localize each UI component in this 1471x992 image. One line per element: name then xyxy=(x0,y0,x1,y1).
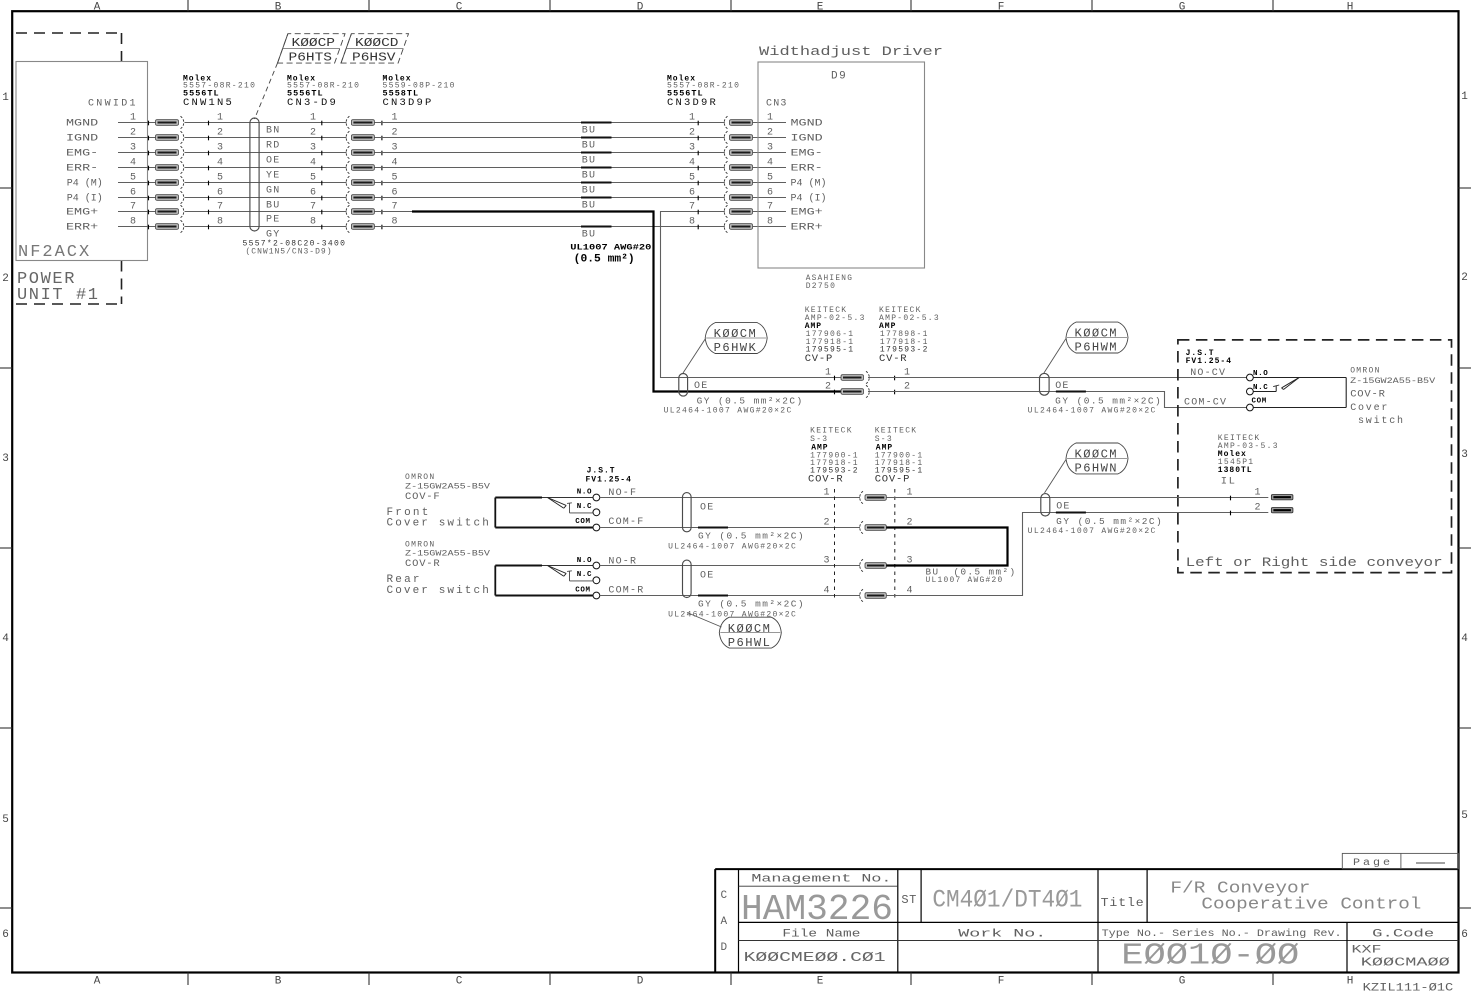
svg-text:OE: OE xyxy=(266,156,280,167)
svg-text:COV-R: COV-R xyxy=(808,473,844,485)
svg-text:D: D xyxy=(637,1,644,13)
J.S.T FV1.25-4 label (front switch) xyxy=(586,467,632,485)
crimp contact CNW1N5 pin 4 xyxy=(149,161,184,173)
svg-text:OE: OE xyxy=(700,571,714,582)
svg-text:4: 4 xyxy=(310,158,316,169)
type number cell xyxy=(1102,928,1342,974)
cable marker rear pair xyxy=(683,560,715,597)
front cover switch body COV-F xyxy=(495,498,593,528)
crimp contact CN3D9R pin 4 xyxy=(689,158,753,174)
svg-text:IL: IL xyxy=(1221,476,1237,488)
svg-text:2: 2 xyxy=(1254,503,1260,514)
svg-text:4: 4 xyxy=(217,158,223,169)
svg-text:CNWID1: CNWID1 xyxy=(88,99,138,110)
svg-text:FV1.25-4: FV1.25-4 xyxy=(1186,357,1232,366)
wire colour label BU xyxy=(266,201,280,212)
svg-text:2: 2 xyxy=(689,128,695,139)
crimp contact CNW1N5 pin 3 xyxy=(149,146,184,158)
svg-text:P4 (I): P4 (I) xyxy=(791,193,827,205)
wire CNW1N5 pin 6 to CN3-D9 xyxy=(185,188,347,201)
svg-text:1380TL: 1380TL xyxy=(1218,466,1253,475)
wire CN3 pin 2 into driver xyxy=(753,128,823,145)
cable note GY front xyxy=(668,528,805,552)
jumper note BU UL1007 xyxy=(926,568,1017,585)
crimp contact CN3-D9/CN3D9P pin 2 xyxy=(346,128,397,144)
svg-text:F: F xyxy=(998,976,1005,988)
svg-text:GY (0.5 mm²×2C): GY (0.5 mm²×2C) xyxy=(698,600,805,610)
svg-text:P4 (M): P4 (M) xyxy=(791,178,827,190)
svg-text:3: 3 xyxy=(767,143,773,154)
svg-text:4: 4 xyxy=(767,158,773,169)
frame column labels bottom xyxy=(94,976,1354,988)
svg-text:5: 5 xyxy=(1461,810,1468,822)
management number cell xyxy=(741,874,893,931)
svg-text:OMRON: OMRON xyxy=(405,541,436,550)
svg-text:IGND: IGND xyxy=(66,132,98,144)
svg-text:MGND: MGND xyxy=(791,118,823,130)
wire CN3 pin 7 into driver xyxy=(753,202,823,219)
wire colour label BU row 8 xyxy=(582,230,596,241)
NF2ACX power unit box xyxy=(16,62,148,263)
svg-text:5: 5 xyxy=(689,173,695,184)
cable note GY at CV left xyxy=(664,397,804,416)
svg-text:P4 (I): P4 (I) xyxy=(67,192,103,204)
svg-text:CV-P: CV-P xyxy=(805,353,833,365)
svg-text:2: 2 xyxy=(825,382,831,393)
wire colour label BU row 1 xyxy=(582,126,596,137)
net labels NO-R / COM-R xyxy=(608,557,644,597)
svg-text:BU: BU xyxy=(266,201,280,212)
wire colour label BU row 4 xyxy=(582,171,596,182)
crimp contact CN3D9R pin 3 xyxy=(689,143,753,159)
Left or Right side conveyor dashed enclosure xyxy=(1178,340,1452,573)
svg-text:4: 4 xyxy=(2,633,9,645)
frame column labels top xyxy=(94,1,1354,13)
frame row labels left xyxy=(2,92,9,941)
svg-text:3: 3 xyxy=(310,143,316,154)
svg-text:COM: COM xyxy=(575,587,590,595)
crimp contact CNW1N5 pin 2 xyxy=(149,131,184,143)
cable marker OE pair to IL xyxy=(1041,494,1071,516)
svg-text:EMG-: EMG- xyxy=(66,147,98,159)
svg-text:Cover: Cover xyxy=(1350,403,1389,414)
ST / CM401 cell xyxy=(901,886,1082,915)
leader from cable to flag P6HWL xyxy=(687,613,722,628)
cover switch body (conveyor) xyxy=(1253,377,1346,407)
wire CNW1N5 pin 5 to CN3-D9 xyxy=(185,173,347,186)
wire colour label YE xyxy=(266,171,280,182)
svg-text:BU: BU xyxy=(582,171,596,182)
svg-text:5: 5 xyxy=(2,814,9,826)
crimp contact CN3D9R pin 2 xyxy=(689,128,753,144)
svg-text:OE: OE xyxy=(1056,502,1070,513)
connector CNW1N5 header xyxy=(183,75,256,110)
wire CNW1N5 pin 4 to CN3-D9 xyxy=(185,158,347,171)
svg-text:P4 (M): P4 (M) xyxy=(67,177,103,189)
wire CN3D9P pin 6 to CN3D9R (BU) xyxy=(375,197,725,199)
svg-text:ERR+: ERR+ xyxy=(791,222,823,234)
svg-text:UL2464-1007 AWG#20×2C: UL2464-1007 AWG#20×2C xyxy=(668,611,797,620)
wire CNW1N5 pin 1 to CN3-D9 xyxy=(185,113,347,126)
svg-text:ERR-: ERR- xyxy=(66,162,98,174)
page number box xyxy=(1342,853,1458,869)
svg-text:8: 8 xyxy=(310,217,316,228)
terminal IL pin 2 xyxy=(1254,503,1292,514)
svg-text:3: 3 xyxy=(823,556,829,567)
wire CN3 pin 8 into driver xyxy=(753,217,823,234)
sheet code KZIL111-01C xyxy=(1363,983,1454,992)
svg-text:KØØCM: KØØCM xyxy=(1075,327,1119,341)
svg-text:2: 2 xyxy=(217,128,223,139)
svg-text:COV-F: COV-F xyxy=(405,491,441,503)
wire COM-CV from CV-R to conveyor xyxy=(868,392,1247,408)
net labels NO-F / COM-F xyxy=(608,488,644,528)
wire CNW1N5 pin 3 to CN3-D9 xyxy=(185,143,347,156)
connector COV-R header xyxy=(808,427,859,486)
svg-text:IGND: IGND xyxy=(791,133,823,145)
wire CN3D9P pin 3 to CN3D9R (BU) xyxy=(375,152,725,154)
svg-text:5: 5 xyxy=(310,173,316,184)
svg-text:G: G xyxy=(1179,976,1186,988)
wire colour label BU row 6 xyxy=(582,201,596,212)
wire colour label BU row 2 xyxy=(582,141,596,152)
svg-text:EØØ1Ø-ØØ: EØØ1Ø-ØØ xyxy=(1121,939,1299,974)
svg-text:P6HWK: P6HWK xyxy=(714,341,758,355)
svg-text:UL2464-1007 AWG#20×2C: UL2464-1007 AWG#20×2C xyxy=(1028,407,1157,416)
svg-text:COM-F: COM-F xyxy=(608,517,644,528)
svg-text:UL2464-1007 AWG#20×2C: UL2464-1007 AWG#20×2C xyxy=(668,543,797,552)
svg-text:N.O: N.O xyxy=(577,489,592,497)
svg-text:8: 8 xyxy=(689,217,695,228)
reference flag K00CM/P6HWN xyxy=(1066,443,1128,476)
wire COV-P pin 1 to conveyor IL xyxy=(886,496,1268,501)
leader from flag P6HWN to cable xyxy=(1045,460,1067,493)
CNWID1 pin 1 net MGND xyxy=(66,113,156,130)
svg-text:CNW1N5: CNW1N5 xyxy=(183,97,234,109)
svg-text:YE: YE xyxy=(266,171,280,182)
svg-text:1: 1 xyxy=(1254,488,1260,499)
svg-text:P6HWM: P6HWM xyxy=(1075,341,1119,355)
reference flag K00CD/P6HSV xyxy=(341,34,409,65)
svg-text:1: 1 xyxy=(689,113,695,124)
svg-text:4: 4 xyxy=(1461,633,1468,645)
svg-text:2: 2 xyxy=(1461,272,1468,284)
wire colour label PE xyxy=(266,215,280,226)
svg-text:4: 4 xyxy=(823,586,829,597)
cable marker OE pair at CV xyxy=(679,374,709,397)
svg-text:Work No.: Work No. xyxy=(958,929,1046,941)
svg-text:UNIT #1: UNIT #1 xyxy=(17,286,100,305)
terminal IL pin 1 xyxy=(1254,488,1292,500)
wire CN3D9P pin 8 to CN3D9R (BU) xyxy=(375,226,725,228)
svg-text:FV1.25-4: FV1.25-4 xyxy=(586,476,632,485)
svg-text:C: C xyxy=(456,1,463,13)
svg-text:COM: COM xyxy=(575,518,590,526)
svg-text:GY (0.5 mm²×2C): GY (0.5 mm²×2C) xyxy=(1055,397,1162,407)
svg-text:3: 3 xyxy=(2,453,9,465)
svg-text:6: 6 xyxy=(217,188,223,199)
crimp contact CN3-D9/CN3D9P pin 4 xyxy=(346,158,397,174)
svg-text:switch: switch xyxy=(1358,415,1405,427)
svg-text:Title: Title xyxy=(1101,896,1145,910)
connector IL header xyxy=(1218,434,1279,487)
wire CN3D9R pin 7 branch down to CV-P xyxy=(661,212,842,378)
rear cover switch OMRON label xyxy=(387,541,491,598)
cable note GY rear xyxy=(668,596,805,620)
svg-text:Rear: Rear xyxy=(387,574,422,586)
svg-text:8: 8 xyxy=(767,217,773,228)
svg-text:ST: ST xyxy=(901,893,916,907)
reference flag K00CM/P6HWM xyxy=(1066,322,1128,355)
crimp contact CN3D9R pin 1 xyxy=(689,113,753,129)
svg-text:GN: GN xyxy=(266,186,280,197)
wire colour label GY xyxy=(266,230,280,241)
wire CN3D9P pin 7 (BU, EMG+) turning down xyxy=(375,212,842,392)
wire colour label BN xyxy=(266,126,280,137)
svg-text:P6HTS: P6HTS xyxy=(289,51,333,65)
title cell xyxy=(1101,880,1422,915)
net label NO-CV xyxy=(1190,368,1226,379)
cover switch COV-R contacts (conveyor) xyxy=(1247,370,1269,411)
svg-text:A: A xyxy=(94,1,101,13)
leader from flag K00CP to harness xyxy=(255,63,278,119)
svg-text:UL1007 AWG#20: UL1007 AWG#20 xyxy=(926,576,1004,585)
svg-text:Cover switch: Cover switch xyxy=(387,585,491,597)
svg-text:2: 2 xyxy=(310,128,316,139)
wire CN3 pin 1 into driver xyxy=(753,113,823,130)
cable note GY to IL xyxy=(1028,513,1164,537)
svg-text:COV-P: COV-P xyxy=(875,473,911,485)
svg-text:N.O: N.O xyxy=(577,557,592,565)
crimp contact CN3D9R pin 6 xyxy=(689,188,753,204)
svg-text:(0.5 mm²): (0.5 mm²) xyxy=(574,254,635,266)
wire CN3D9P pin 2 to CN3D9R (BU) xyxy=(375,137,725,139)
svg-text:Cooperative Control: Cooperative Control xyxy=(1201,896,1421,915)
svg-text:6: 6 xyxy=(689,188,695,199)
crimp contact CV pin 1 xyxy=(825,368,910,384)
svg-text:File Name: File Name xyxy=(782,929,860,941)
svg-text:Widthadjust Driver: Widthadjust Driver xyxy=(759,44,943,59)
crimp contact CNW1N5 pin 5 xyxy=(149,176,184,188)
CNWID1 pin 3 net EMG- xyxy=(66,143,156,160)
crimp contact CN3D9R pin 8 xyxy=(689,217,753,233)
svg-text:4: 4 xyxy=(689,158,695,169)
wire CN3D9P pin 1 to CN3D9R (BU) xyxy=(375,122,725,124)
svg-text:OMRON: OMRON xyxy=(405,473,436,482)
svg-text:N.O: N.O xyxy=(1253,370,1268,378)
svg-text:Z-15GW2A55-B5V: Z-15GW2A55-B5V xyxy=(405,482,490,491)
wire colour label GN xyxy=(266,186,280,197)
svg-text:F: F xyxy=(998,1,1005,13)
wire CN3 pin 3 into driver xyxy=(753,143,823,160)
crimp contact COV pin 2 xyxy=(823,518,912,534)
crimp contact CN3-D9/CN3D9P pin 5 xyxy=(346,173,397,189)
svg-text:KØØCD: KØØCD xyxy=(355,36,399,50)
svg-text:HAM3226: HAM3226 xyxy=(741,889,893,930)
svg-text:NO-CV: NO-CV xyxy=(1190,368,1226,379)
wire COV-P pin 4 up to conveyor IL xyxy=(886,511,1268,596)
crimp contact CNW1N5 pin 8 xyxy=(149,220,184,232)
svg-text:KØØCP: KØØCP xyxy=(292,36,336,50)
connector CN3D9R header xyxy=(667,75,740,110)
wire CN3 pin 6 into driver xyxy=(753,188,827,205)
svg-text:6: 6 xyxy=(310,188,316,199)
svg-text:5: 5 xyxy=(130,173,136,184)
svg-text:Left or Right side conveyor: Left or Right side conveyor xyxy=(1186,555,1443,570)
wire CN3 pin 5 into driver xyxy=(753,173,827,190)
svg-text:BU: BU xyxy=(582,156,596,167)
svg-text:2: 2 xyxy=(767,128,773,139)
wire COM-R xyxy=(600,595,860,597)
svg-text:Page: Page xyxy=(1353,858,1393,869)
svg-text:C: C xyxy=(721,890,728,902)
svg-text:(CNW1N5/CN3-D9): (CNW1N5/CN3-D9) xyxy=(246,248,333,257)
crimp contact CN3-D9/CN3D9P pin 6 xyxy=(346,188,397,204)
svg-text:G.Code: G.Code xyxy=(1372,929,1434,941)
CNWID1 pin 8 net ERR+ xyxy=(66,217,156,234)
front cover switch contacts xyxy=(575,489,600,531)
g.code cell xyxy=(1352,929,1450,970)
svg-text:BU: BU xyxy=(582,201,596,212)
svg-text:1: 1 xyxy=(310,113,316,124)
frame row labels right xyxy=(1461,91,1468,941)
svg-text:2: 2 xyxy=(2,273,9,285)
svg-text:B: B xyxy=(275,1,282,13)
crimp contact CNW1N5 pin 6 xyxy=(149,191,184,203)
svg-text:H: H xyxy=(1347,976,1354,988)
svg-text:OE: OE xyxy=(1055,381,1069,392)
leader from flag P6HWK to cable xyxy=(683,339,705,373)
svg-text:1: 1 xyxy=(2,92,9,104)
svg-text:RD: RD xyxy=(266,141,280,152)
svg-text:COV-R: COV-R xyxy=(405,558,441,570)
connector COV-P header xyxy=(875,427,924,486)
cable marker CNW1N5/CN3-D9 harness xyxy=(250,118,259,231)
svg-text:OE: OE xyxy=(700,503,714,514)
wire colour label OE xyxy=(266,156,280,167)
wire gauge note UL1007 xyxy=(570,243,651,266)
wire NO-CV from CV-R to conveyor xyxy=(868,377,1247,379)
svg-text:A: A xyxy=(94,976,101,988)
front cover switch OMRON label xyxy=(387,473,491,530)
svg-text:BN: BN xyxy=(266,126,280,137)
svg-text:BU: BU xyxy=(582,230,596,241)
crimp contact CNW1N5 pin 1 xyxy=(149,116,184,128)
leader from flag P6HWM to cable xyxy=(1044,339,1067,374)
svg-text:CM4Ø1/DT4Ø1: CM4Ø1/DT4Ø1 xyxy=(932,886,1082,915)
svg-text:3: 3 xyxy=(689,143,695,154)
rear cover switch body COV-R xyxy=(495,566,593,596)
svg-text:UL2464-1007 AWG#20×2C: UL2464-1007 AWG#20×2C xyxy=(664,407,793,416)
svg-text:P6HWL: P6HWL xyxy=(728,636,772,650)
svg-text:KØØCM: KØØCM xyxy=(1075,448,1119,462)
cable marker front pair xyxy=(683,493,715,532)
wire NO-R xyxy=(600,565,860,567)
svg-text:3: 3 xyxy=(1461,449,1468,461)
crimp contact COV pin 3 xyxy=(823,556,912,572)
connector housing separators COV-R/COV-P xyxy=(835,489,895,602)
svg-text:D: D xyxy=(721,942,728,954)
svg-text:8: 8 xyxy=(217,217,223,228)
svg-text:2: 2 xyxy=(130,128,136,139)
svg-text:GY (0.5 mm²×2C): GY (0.5 mm²×2C) xyxy=(697,397,804,407)
crimp contact COV pin 4 xyxy=(823,586,912,602)
CNWID1 pin 2 net IGND xyxy=(66,128,156,145)
connector CN3D9P header xyxy=(383,75,456,110)
svg-text:ERR-: ERR- xyxy=(791,163,823,175)
svg-text:G: G xyxy=(1179,1,1186,13)
jumper COV-P pin 2 to pin 3 (BU) xyxy=(886,528,1007,566)
svg-text:COM: COM xyxy=(1252,398,1267,406)
wire CNW1N5 pin 2 to CN3-D9 xyxy=(185,128,347,141)
svg-text:3: 3 xyxy=(130,143,136,154)
OMRON cover switch label (conveyor) xyxy=(1350,367,1435,428)
svg-text:Management No.: Management No. xyxy=(751,874,891,886)
svg-text:NF2ACX: NF2ACX xyxy=(18,243,91,262)
svg-text:KØØCMAØØ: KØØCMAØØ xyxy=(1361,956,1450,970)
wire CN3D9P pin 5 to CN3D9R (BU) xyxy=(375,182,725,184)
crimp contact CN3-D9/CN3D9P pin 1 xyxy=(346,113,397,129)
svg-text:1: 1 xyxy=(767,113,773,124)
svg-text:EMG+: EMG+ xyxy=(66,206,98,218)
CNWID1 pin 6 net P4(I) xyxy=(67,188,156,205)
wire colour label RD xyxy=(266,141,280,152)
svg-text:D9: D9 xyxy=(831,71,847,83)
svg-text:3: 3 xyxy=(217,143,223,154)
svg-text:1: 1 xyxy=(823,488,829,499)
CNWID1 pin 4 net ERR- xyxy=(66,158,156,175)
svg-text:EMG+: EMG+ xyxy=(791,207,823,219)
svg-text:1: 1 xyxy=(130,113,136,124)
connector CN3-D9 header xyxy=(287,75,360,110)
svg-text:CN3D9R: CN3D9R xyxy=(667,97,718,109)
crimp contact COV pin 1 xyxy=(823,488,912,504)
svg-text:7: 7 xyxy=(130,202,136,213)
svg-text:Z-15GW2A55-B5V: Z-15GW2A55-B5V xyxy=(1350,377,1435,386)
file name cell xyxy=(744,929,886,967)
svg-text:5: 5 xyxy=(767,173,773,184)
wire CNW1N5 pin 7 to CN3-D9 xyxy=(185,202,347,215)
svg-text:BU: BU xyxy=(582,126,596,137)
work number cell xyxy=(958,929,1046,941)
svg-text:1: 1 xyxy=(217,113,223,124)
svg-text:N.C: N.C xyxy=(577,571,592,579)
svg-text:UL2464-1007 AWG#20×2C: UL2464-1007 AWG#20×2C xyxy=(1028,527,1157,536)
crimp contact CN3D9R pin 7 xyxy=(689,202,753,218)
svg-text:MGND: MGND xyxy=(66,117,98,129)
crimp contact CN3-D9/CN3D9P pin 7 xyxy=(346,202,397,218)
svg-text:BU: BU xyxy=(582,141,596,152)
svg-text:EMG-: EMG- xyxy=(791,148,823,160)
J.S.T FV1.25-4 label (conveyor) xyxy=(1186,349,1232,366)
svg-text:COV-R: COV-R xyxy=(1350,389,1386,401)
svg-text:E: E xyxy=(817,1,824,13)
svg-text:PE: PE xyxy=(266,215,280,226)
wire CN3 pin 4 into driver xyxy=(753,158,823,175)
svg-text:N.C: N.C xyxy=(1253,384,1268,392)
svg-text:KØØCMEØØ.CØ1: KØØCMEØØ.CØ1 xyxy=(744,950,886,966)
svg-text:KØØCM: KØØCM xyxy=(728,622,772,636)
svg-text:KØØCM: KØØCM xyxy=(714,327,758,341)
svg-text:CN3D9P: CN3D9P xyxy=(383,97,434,109)
crimp contact CN3D9R pin 5 xyxy=(689,173,753,189)
svg-text:N.C: N.C xyxy=(577,503,592,511)
svg-text:BU: BU xyxy=(582,186,596,197)
svg-text:6: 6 xyxy=(130,188,136,199)
crimp contact CV pin 2 xyxy=(825,382,910,398)
svg-text:C: C xyxy=(456,976,463,988)
svg-text:6: 6 xyxy=(2,929,9,941)
